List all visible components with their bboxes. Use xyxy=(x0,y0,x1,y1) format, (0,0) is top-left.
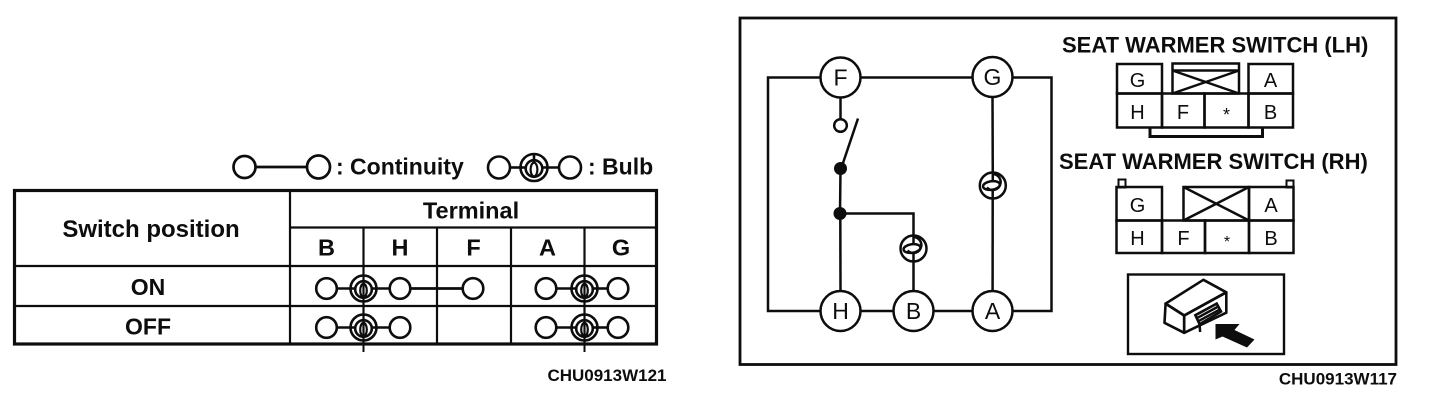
svg-text:ON: ON xyxy=(131,274,166,300)
terminal F xyxy=(821,58,861,98)
table grid lines xyxy=(14,190,656,352)
wire top F to G xyxy=(861,76,973,79)
svg-text:F: F xyxy=(466,235,480,261)
svg-text:SEAT WARMER SWITCH (RH): SEAT WARMER SWITCH (RH) xyxy=(1059,149,1368,174)
svg-text:F: F xyxy=(833,65,847,91)
svg-text:CHU0913W121: CHU0913W121 xyxy=(547,366,666,385)
RH connector pin star xyxy=(1205,221,1249,254)
wire B to A xyxy=(934,310,973,313)
svg-text:Terminal: Terminal xyxy=(423,198,519,224)
svg-text:OFF: OFF xyxy=(125,314,171,340)
RH connector keyway crossed box xyxy=(1184,187,1250,221)
LH connector pin G xyxy=(1117,64,1162,94)
svg-text:SEAT WARMER SWITCH (LH): SEAT WARMER SWITCH (LH) xyxy=(1062,33,1368,58)
svg-text:: Continuity: : Continuity xyxy=(336,154,464,180)
RH connector pin B xyxy=(1249,221,1294,254)
wire junction to H xyxy=(839,214,842,292)
RH connector pin H xyxy=(1117,221,1163,254)
connector icon socket pins xyxy=(1195,304,1221,332)
LH connector pin B xyxy=(1249,94,1294,128)
wire between junctions xyxy=(839,169,842,214)
wire left edge of circuit loop xyxy=(768,78,821,312)
bulb on G-A branch xyxy=(980,97,1006,292)
svg-text:F: F xyxy=(1177,102,1189,124)
svg-text:H: H xyxy=(392,235,409,261)
ON row continuity A-G with bulb xyxy=(536,276,629,302)
svg-text:B: B xyxy=(906,298,921,324)
terminal A xyxy=(973,291,1013,331)
connector icon body xyxy=(1165,280,1227,333)
LH connector pin star xyxy=(1205,94,1249,128)
wire branch to bulb B xyxy=(840,214,914,236)
wire top G to right edge and down to A xyxy=(1013,78,1052,312)
junction dot 1 xyxy=(834,162,847,175)
RH connector pin A xyxy=(1249,187,1294,221)
wire F down to switch xyxy=(839,98,842,120)
legend bulb symbol xyxy=(488,154,581,181)
terminal H xyxy=(821,291,861,331)
table outer border xyxy=(15,191,657,345)
OFF row continuity B-H with bulb xyxy=(316,315,410,341)
svg-text:Switch position: Switch position xyxy=(62,216,239,243)
inset box connector icon frame xyxy=(1128,275,1284,355)
svg-text:G: G xyxy=(1130,70,1146,92)
svg-text:G: G xyxy=(984,64,1002,90)
svg-text:H: H xyxy=(832,298,849,324)
terminal G xyxy=(973,57,1013,97)
switch open contact xyxy=(834,119,847,132)
svg-text:G: G xyxy=(1130,195,1146,217)
svg-text:CHU0913W117: CHU0913W117 xyxy=(1279,370,1397,389)
RH connector pin G xyxy=(1117,187,1163,221)
svg-text:H: H xyxy=(1130,102,1144,124)
svg-text:A: A xyxy=(985,298,1001,324)
svg-text:G: G xyxy=(612,235,630,261)
RH connector pin F xyxy=(1162,221,1205,254)
svg-text:: Bulb: : Bulb xyxy=(588,154,653,180)
LH connector bottom tab xyxy=(1150,128,1263,137)
OFF row continuity A-G with bulb xyxy=(536,315,629,341)
svg-text:A: A xyxy=(1264,195,1278,217)
RH connector top-right lug xyxy=(1287,181,1294,188)
LH connector pin A xyxy=(1249,64,1294,94)
LH connector pin H xyxy=(1117,94,1162,128)
legend continuity symbol xyxy=(234,156,331,179)
ON row continuity B-H-F with bulb xyxy=(316,276,483,302)
svg-text:B: B xyxy=(1264,228,1277,250)
connector icon arrow xyxy=(1216,324,1255,348)
right panel frame xyxy=(740,18,1396,365)
svg-text:B: B xyxy=(318,235,335,261)
wire H to B xyxy=(861,310,894,313)
bulb on B branch xyxy=(901,235,927,291)
terminal B xyxy=(894,291,934,331)
LH connector keyway crossed box xyxy=(1173,64,1240,94)
svg-text:H: H xyxy=(1130,228,1144,250)
svg-text:A: A xyxy=(539,235,556,261)
switch blade xyxy=(842,119,858,167)
svg-text:B: B xyxy=(1264,102,1277,124)
svg-text:A: A xyxy=(1264,70,1278,92)
svg-text:F: F xyxy=(1177,228,1189,250)
svg-text:*: * xyxy=(1224,234,1230,251)
LH connector pin F xyxy=(1162,94,1205,128)
svg-text:*: * xyxy=(1223,105,1230,125)
junction dot 2 xyxy=(834,207,847,220)
RH connector top-left lug xyxy=(1119,180,1126,188)
